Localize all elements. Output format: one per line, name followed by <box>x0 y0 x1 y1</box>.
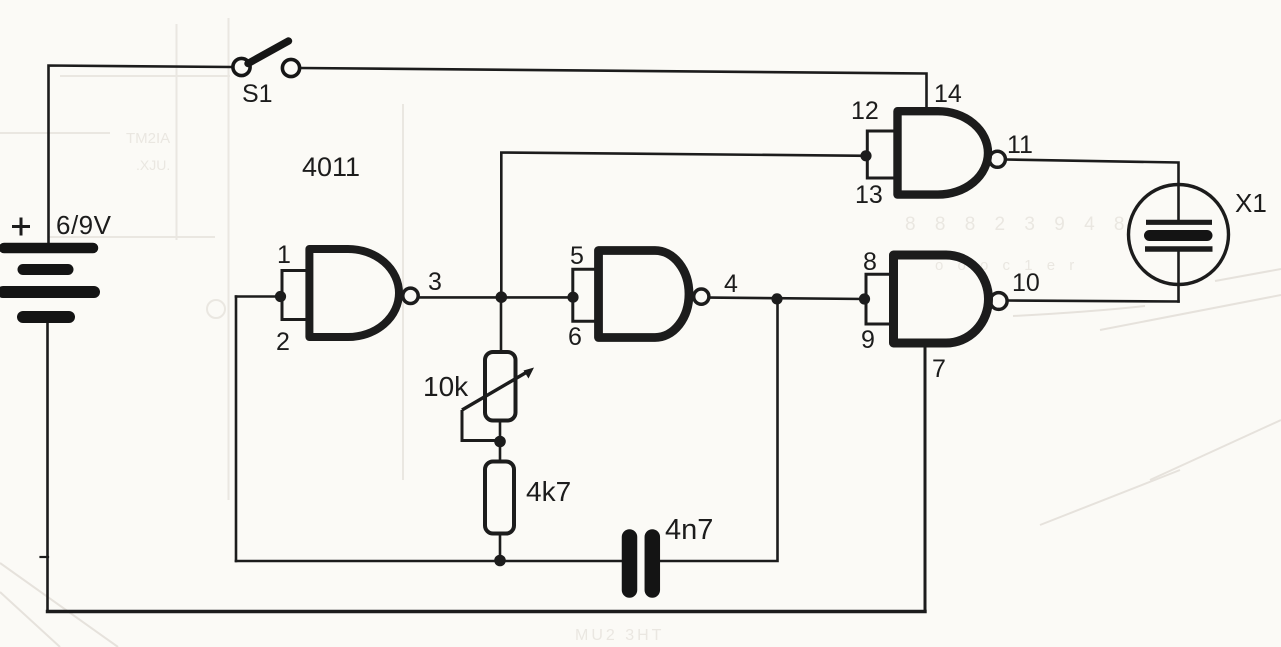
svg-text:6: 6 <box>568 323 582 351</box>
svg-text:8: 8 <box>863 248 877 276</box>
svg-text:13: 13 <box>855 181 883 209</box>
svg-text:4k7: 4k7 <box>526 476 571 507</box>
svg-text:8 8 8 2 3 9 4 8: 8 8 8 2 3 9 4 8 <box>905 214 1132 235</box>
svg-text:2: 2 <box>276 328 290 356</box>
svg-text:4: 4 <box>724 270 738 298</box>
svg-text:1: 1 <box>277 241 291 269</box>
svg-text:5: 5 <box>570 242 584 270</box>
svg-text:9: 9 <box>861 326 875 354</box>
svg-text:11: 11 <box>1007 131 1033 159</box>
svg-text:7: 7 <box>932 355 946 383</box>
svg-text:MU2 3HT: MU2 3HT <box>575 627 664 644</box>
svg-text:4011: 4011 <box>302 152 360 182</box>
svg-text:S1: S1 <box>242 80 273 108</box>
svg-text:4n7: 4n7 <box>665 514 713 546</box>
svg-text:14: 14 <box>934 80 962 108</box>
svg-text:3: 3 <box>428 268 442 296</box>
svg-text:X1: X1 <box>1235 188 1267 218</box>
svg-text:10: 10 <box>1012 269 1040 297</box>
svg-text:.XJU.: .XJU. <box>136 157 170 173</box>
svg-text:12: 12 <box>851 97 879 125</box>
svg-text:10k: 10k <box>423 371 469 402</box>
svg-text:6/9V: 6/9V <box>56 210 112 240</box>
svg-text:TM2IA: TM2IA <box>126 130 170 147</box>
